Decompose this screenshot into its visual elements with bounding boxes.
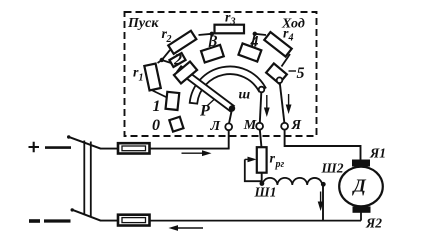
svg-text:5: 5: [297, 65, 305, 82]
minus lead stub: [44, 219, 71, 222]
current arrow beside Я wire: [286, 94, 292, 114]
svg-text:1: 1: [153, 98, 161, 115]
svg-text:М: М: [243, 118, 257, 133]
resistor r4: [264, 32, 291, 57]
plus lead stub: [45, 146, 71, 149]
resistor r3: [215, 25, 245, 34]
knife switch top blade: [69, 137, 101, 149]
wire pivot to terminal Л: [229, 110, 232, 123]
junction node 2 (r1-r2-stud2): [160, 58, 164, 62]
motor bottom brush: [353, 206, 371, 212]
svg-text:Я2: Я2: [365, 216, 382, 231]
contact stud 0: [169, 117, 183, 132]
svg-text:2: 2: [166, 34, 172, 45]
resistor r1: [144, 64, 160, 91]
wire stud5 contact to terminal Я: [280, 83, 285, 123]
svg-text:Я: Я: [291, 118, 302, 133]
rheostat r_rg body: [257, 147, 267, 173]
terminal Я: [281, 123, 288, 130]
wire r_rg bottom lead: [261, 173, 263, 185]
motor top brush: [352, 160, 370, 167]
terminal М: [256, 123, 263, 130]
svg-text:Р: Р: [199, 103, 210, 120]
wire r4 bottom end to stud 5: [282, 54, 291, 67]
contact stud 3: [201, 45, 224, 63]
wire node 3 junction to stud 3: [210, 34, 212, 47]
svg-text:Пуск: Пуск: [127, 16, 159, 31]
plus supply terminal: [29, 142, 40, 153]
wire terminal Л down to supply: [228, 130, 230, 149]
svg-text:4: 4: [288, 33, 294, 44]
wire blade to top fuse: [100, 148, 119, 150]
contact stud 5: [266, 63, 287, 83]
lever Р shaft: [177, 66, 234, 111]
wire node 4 junction to r4 top end: [255, 34, 266, 35]
junction Ш2 node: [321, 182, 326, 187]
fuse F2 (bottom): [118, 215, 150, 226]
svg-text:Л: Л: [210, 119, 221, 134]
arc Ш (brush slide bar): [190, 66, 266, 103]
arc end contact circle: [259, 87, 265, 93]
svg-text:ш: ш: [239, 87, 251, 102]
current arrow on top wire: [182, 150, 212, 156]
current arrow beside Ш2 wire: [318, 192, 324, 212]
svg-text:1: 1: [139, 73, 144, 84]
current arrow beside М wire: [264, 95, 270, 117]
wire r1 bottom to stud 1: [153, 91, 168, 98]
svg-text:Я1: Я1: [369, 146, 386, 161]
wire terminal Я down and right to motor: [285, 129, 361, 159]
knife switch crossbar: [83, 141, 85, 216]
dashed enclosure of starting rheostat: [125, 12, 317, 136]
motor Д armature circle: [339, 167, 383, 207]
minus supply terminal: [29, 219, 40, 223]
wire node 4 junction to stud 4: [252, 34, 255, 46]
shunt winding coil Ш1-Ш2: [262, 178, 322, 185]
wire bottom brush to bus: [360, 213, 362, 221]
wire node 2 junction to stud 2: [162, 60, 171, 63]
junction node 4 (r3-r4-stud4): [253, 32, 257, 36]
fuse F1 (top): [118, 143, 150, 153]
resistor r2: [168, 31, 196, 54]
svg-text:4: 4: [250, 34, 259, 51]
svg-text:0: 0: [152, 117, 160, 134]
r_rg slider arrow and bypass wire: [245, 157, 257, 163]
svg-text:Ш1: Ш1: [254, 185, 277, 200]
contact stud 1: [166, 92, 180, 110]
svg-text:3: 3: [230, 17, 236, 28]
svg-text:2: 2: [173, 52, 182, 69]
junction node 3 (r2-r3-stud3): [210, 32, 214, 36]
contact stud 4: [238, 43, 261, 61]
wire Ш2 to negative bus: [322, 185, 324, 221]
junction Ш1 node: [260, 181, 265, 186]
label Р with leader: [208, 100, 215, 106]
terminal Л: [225, 123, 232, 130]
svg-text:рг: рг: [275, 159, 285, 170]
wire blade to bottom fuse: [100, 220, 119, 222]
svg-text:Д: Д: [352, 176, 367, 196]
knife switch bottom blade: [72, 210, 101, 221]
wire node 2 junction to r2 left end: [162, 50, 170, 60]
wire r2 right end to node 3 junction: [199, 34, 212, 35]
leader to label 5: [289, 70, 297, 72]
wire arc contact to terminal М: [260, 92, 262, 123]
current arrow on bottom wire: [169, 225, 204, 231]
wire terminal М down to rheostat r_rg: [260, 129, 262, 147]
contact stud 2: [169, 53, 185, 67]
wire r1 top to node 2 junction: [158, 60, 162, 63]
negative bus wire to motor: [150, 220, 362, 222]
lever pivot: [229, 105, 235, 111]
stud 5 contact circle: [277, 77, 283, 83]
lever brush crosspiece: [174, 62, 197, 84]
svg-text:Ш2: Ш2: [321, 161, 344, 176]
wire top fuse to terminal Л: [150, 148, 230, 150]
